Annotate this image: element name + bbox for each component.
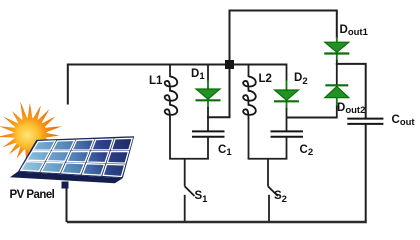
diode Dout2 [325,84,348,86]
label C1 [218,145,232,157]
wire phase1 bottom box [169,158,209,160]
label S1 [195,191,208,203]
wire C2 bottom lead [286,137,288,159]
switch S2 blade [268,186,278,196]
node junction [225,60,234,69]
label L2 [259,74,272,86]
wire input bus [68,64,287,66]
diode Dout1 [325,42,349,52]
label Cout [392,115,415,127]
wire D1 anode stub [207,64,209,82]
label Dout1 [340,25,368,37]
wire Cout bottom lead [365,124,367,223]
wire Dout1 anode stub [336,10,338,39]
wire junction riser [229,10,231,65]
diode D1 [196,89,220,99]
label C2 [300,145,314,157]
wire Dout1 green stem [336,37,338,61]
wire D2 node to Dout2 [287,117,337,119]
wire bottom bus [67,221,367,223]
capacitor C1 [192,131,225,136]
wire output jog to Cout [336,64,366,119]
wire S2 bottom lead [268,195,270,222]
wire S2 stem [267,159,269,187]
wire jog D1 node to dropper [207,116,231,118]
PV panel cells [21,138,132,176]
wire left input from PV [67,64,69,105]
wire top bus [230,10,337,12]
wire L1 bottom lead [169,119,171,159]
capacitor Cout [347,119,383,124]
wire D1 green stem [207,80,209,109]
label D2 [294,73,308,85]
wire C1 bottom lead [207,137,209,159]
label L1 [149,76,162,88]
PV panel sun core [14,118,47,151]
label PV Panel [10,190,55,202]
capacitor C2 [271,131,304,136]
inductor L1 [165,77,178,120]
label D1 [191,69,205,81]
wire D2 anode stub [286,64,288,82]
wire PV panel bottom lead [66,185,68,222]
switch S1 blade [185,186,195,196]
wire D1 cathode to C1 [207,107,209,132]
wire D2 green stem [286,80,288,110]
wire S1 stem [184,159,186,187]
wire Dout1 cathode to Dout2 bar [336,60,338,86]
wire Dout2 green stem [336,97,338,107]
wire L2 top lead [248,64,250,78]
wire phase2 bottom box [248,158,288,160]
label S2 [274,191,287,203]
PV panel sun [0,102,62,166]
wire S1 bottom lead [184,195,186,222]
PV panel body [18,136,134,178]
wire L1 top lead [169,64,171,78]
label Dout2 [337,103,365,115]
wire Dout2 anode lead [336,106,338,119]
PV panel bottom bar [10,172,123,184]
wire D2 cathode to C2 [286,108,288,132]
wire junction dropper [229,65,231,118]
PV panel leg [62,182,69,189]
diode D2 [275,90,299,100]
wire L2 bottom lead [248,119,250,159]
inductor L2 [243,77,256,120]
